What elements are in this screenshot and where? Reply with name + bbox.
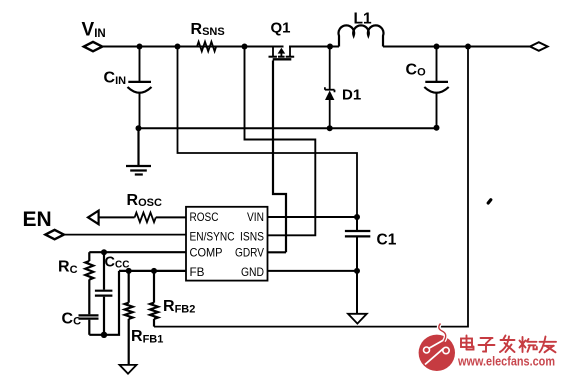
resistor ROSC [135,213,156,223]
wire ground bus [139,127,438,129]
svg-text:www.elecfans.com: www.elecfans.com [457,355,555,369]
transistor Q1 [269,47,295,60]
node junction FB RFB1 [126,268,132,274]
resistor RSNS [197,42,216,52]
node junction feedback tap [465,44,471,50]
node ROSC arrow [88,211,99,225]
stray ink mark [488,200,491,203]
capacitor CC [79,315,99,334]
resistor RFB1 [125,271,133,365]
node junction R_SNS right [242,44,248,50]
wire VIN sense trace to IC [178,47,358,218]
node junction switch node D1 [327,44,333,50]
node junction C_IN top [137,44,143,50]
wire GDRV pin [268,251,287,253]
capacitor CIN [128,47,152,129]
capacitor CCC [95,252,113,335]
node junction comp bottom [101,332,107,338]
node junction bus CIN [136,125,142,131]
node output diamond [530,42,548,51]
IC U1 box [186,207,268,281]
wire ISNS trace [245,47,316,236]
node junction C_O top [434,44,440,50]
wire GND pin [268,270,358,272]
node junction bus D1 [327,125,333,131]
node junction C1 top [354,214,360,220]
wire ROSC row [99,216,186,218]
wire Q1 gate to GDRV [273,61,286,253]
node junction bus CO [434,125,440,131]
node junction FB RFB2 [151,268,157,274]
node junction R_SNS left [175,44,181,50]
wire VIN pin [268,216,358,218]
ground signal triangle under C1 [348,314,367,324]
resistor RFB2 [150,271,158,327]
wire comp bottom bus [89,271,119,335]
wire feedback loop [154,47,468,327]
resistor RC branch [85,252,93,314]
wire EN row [64,234,186,236]
ground earth symbol under CIN [126,128,151,174]
node VIN input diamond [84,42,103,51]
wire FB row [119,270,186,272]
node EN input diamond [45,230,64,239]
node junction GND pin C1 [354,268,360,274]
node junction COMP CCC [101,249,107,255]
ground signal triangle under RFB1 [120,365,137,374]
wire COMP row [89,251,186,253]
diode D1 [325,47,335,129]
inductor L1 [339,25,384,46]
capacitor CO [424,47,448,128]
watermark chinese glyphs [461,336,556,353]
capacitor C1 [345,217,370,314]
wire VIN rail top [102,46,530,48]
